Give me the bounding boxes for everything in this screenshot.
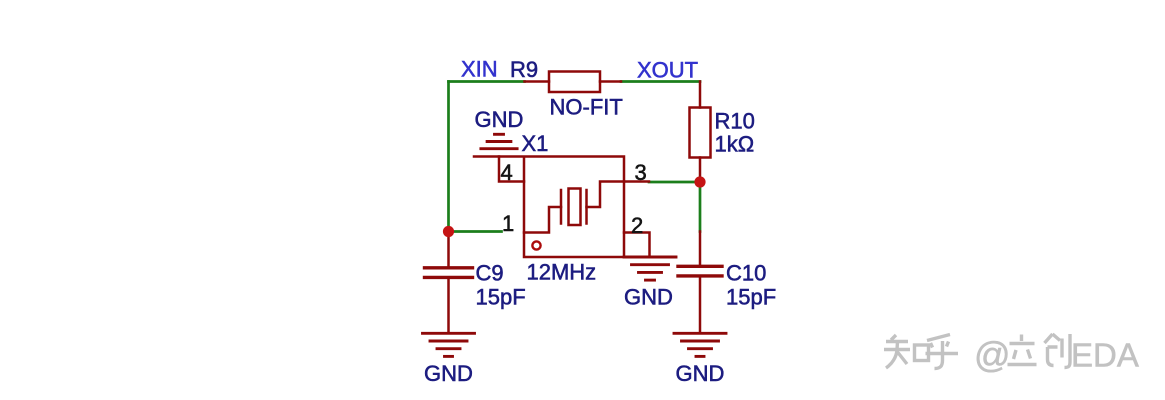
capacitor C9 plates and leads	[425, 232, 473, 333]
svg-text:GND: GND	[424, 361, 473, 386]
svg-text:XOUT: XOUT	[637, 58, 698, 83]
watermark glyph hu	[926, 335, 959, 369]
ground symbol at pin 4 (inverted, on top line)	[481, 134, 517, 148]
wire XIN: net from top-left corner to R9 left lead	[449, 80, 525, 83]
watermark: zhihu @LCEDA	[884, 334, 1070, 369]
resistor R10 vertical body with leads	[690, 82, 711, 183]
svg-text:3: 3	[635, 160, 647, 185]
svg-text:R10: R10	[715, 109, 755, 134]
svg-text:GND: GND	[624, 285, 673, 310]
pin 1 polarity circle inside X1	[532, 241, 540, 249]
svg-text:GND: GND	[676, 361, 725, 386]
svg-text:GND: GND	[475, 107, 524, 132]
crystal symbol inside X1: pin1 path, plates, crystal slab	[524, 182, 624, 233]
svg-text:1: 1	[502, 211, 514, 236]
crystal U X1 body box with top-left extension	[474, 157, 624, 258]
wire: pin 1 net from junction to X1 pin 1	[449, 230, 502, 233]
capacitor C10 plates and leads	[678, 232, 722, 333]
ground symbol at pin 2	[624, 257, 676, 280]
watermark glyph li	[1008, 335, 1037, 365]
svg-text:15pF: 15pF	[476, 285, 526, 310]
wire: left vertical net XIN down to C9 junction	[447, 82, 450, 232]
ground symbol below C10	[674, 333, 726, 356]
svg-text:4: 4	[501, 160, 513, 185]
wire XOUT: net from R9 right lead to top-right corner	[621, 80, 700, 83]
svg-text:XIN: XIN	[461, 57, 498, 82]
svg-text:X1: X1	[522, 131, 549, 156]
pin 4 connection stub	[499, 157, 524, 182]
wire: pin 3 net from X1 to R10 junction	[649, 181, 700, 184]
watermark glyph zhi	[884, 335, 910, 368]
watermark glyph chuang	[1045, 334, 1071, 368]
svg-text:NO-FIT: NO-FIT	[550, 95, 623, 120]
resistor R9 (NO-FIT) horizontal body with leads	[525, 72, 622, 93]
pin 2 lead from X1 down to ground	[624, 233, 650, 258]
junction node at R10/pin3/C10	[694, 176, 705, 187]
svg-text:1kΩ: 1kΩ	[715, 132, 755, 157]
svg-text:15pF: 15pF	[726, 285, 776, 310]
wire: net from junction down toward C10	[699, 182, 702, 232]
svg-text:R9: R9	[510, 57, 538, 82]
svg-text:12MHz: 12MHz	[527, 260, 597, 285]
pin 3 lead from X1	[624, 180, 649, 183]
svg-text:@: @	[974, 334, 1011, 375]
ground symbol below C9	[423, 333, 475, 356]
svg-text:C9: C9	[476, 261, 504, 286]
svg-text:2: 2	[631, 213, 643, 238]
svg-text:EDA: EDA	[1071, 337, 1139, 374]
junction node at XIN/C9	[443, 226, 454, 237]
svg-text:C10: C10	[726, 261, 766, 286]
